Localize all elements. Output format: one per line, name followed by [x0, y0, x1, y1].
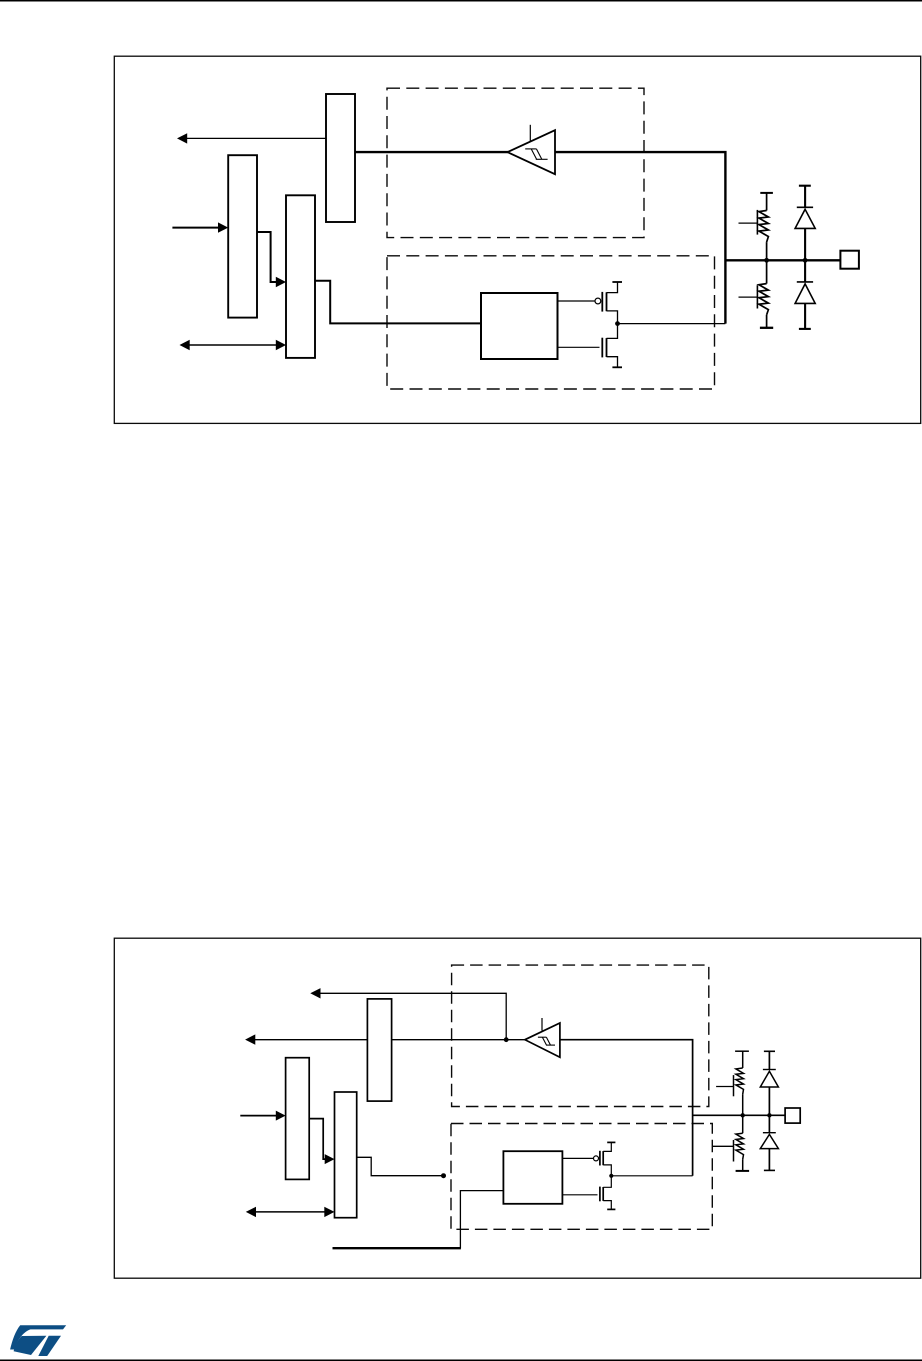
Q3 source stub to VDD	[603, 1142, 611, 1151]
output control block	[481, 293, 558, 359]
figure 2 frame	[114, 938, 920, 1278]
Q3 gate wire	[562, 1157, 593, 1159]
wire register C to output control (stepped)	[315, 281, 481, 324]
VDD rail bar (protection)	[799, 185, 811, 187]
wire pad net horizontal (fig2)	[693, 1114, 786, 1116]
Q3 gate bar	[599, 1151, 601, 1166]
Schmitt trigger U2	[525, 1023, 560, 1057]
node pull-up junction (fig2)	[741, 1113, 745, 1117]
R1 switch bar	[756, 210, 758, 235]
Q4 drain stub	[603, 1176, 611, 1188]
wire alternate function output (thick bottom lead)	[333, 1247, 461, 1249]
Q1 gate wire	[558, 300, 595, 302]
transistor Q1 (P-MOS)	[558, 300, 595, 302]
VSS rail bar (protection)	[799, 328, 811, 330]
node alternate function input junction	[504, 1037, 509, 1042]
R4 switch bar	[733, 1140, 735, 1162]
arrow alternate function input	[318, 993, 506, 1039]
R4 on/off switch lever	[713, 1145, 734, 1147]
register block A	[326, 94, 355, 222]
header rule	[0, 0, 922, 2]
Q3 gate bubble	[594, 1156, 599, 1161]
hysteresis symbol (fig2)	[538, 1037, 555, 1045]
Q4 channel bar	[602, 1187, 604, 1201]
R2 on/off switch lever	[739, 296, 758, 298]
R3 on/off switch lever	[716, 1086, 733, 1088]
Q4 gate wire	[562, 1194, 597, 1196]
R3 switch bar	[733, 1075, 735, 1096]
VDD rail bar (fig2 driver)	[607, 1141, 615, 1143]
arrow Write (fig2)	[240, 1115, 278, 1117]
I/O pin pad (fig2)	[785, 1108, 800, 1123]
register block C	[286, 195, 315, 358]
output control block (fig2)	[503, 1151, 562, 1204]
node push-pull drain junction	[615, 321, 620, 326]
wire pad net horizontal	[725, 259, 840, 261]
Q1 source stub to VDD	[607, 282, 618, 293]
Q1 gate bar	[601, 292, 603, 312]
transistor Q2 (N-MOS)	[558, 346, 600, 348]
hysteresis symbol	[525, 149, 547, 159]
arrow Read/Write (double headed)	[186, 344, 279, 346]
node pull-up junction	[764, 258, 769, 263]
diode D1 (to VDD)	[804, 186, 806, 208]
register block B (fig2)	[286, 1058, 310, 1180]
Q4 gate bar	[599, 1187, 601, 1202]
VSS rail bar (pull-down)	[760, 327, 773, 329]
resistor R1 (pull-up, sawtooth)	[759, 193, 769, 260]
diode D3 (to VDD, fig2)	[768, 1051, 770, 1069]
arrow Read/Write (fig2, double headed)	[252, 1211, 328, 1213]
resistor R3 (pull-up, fig2, sawtooth)	[736, 1051, 744, 1115]
Q2 source stub to VSS	[607, 357, 618, 368]
VDD rail bar (fig2 pull-up)	[735, 1050, 749, 1052]
VSS rail bar (fig2 pull-down)	[736, 1170, 750, 1172]
Q2 gate wire	[558, 346, 600, 348]
diode D4 (to VSS, fig2)	[768, 1115, 770, 1132]
register block C (fig2)	[335, 1092, 357, 1218]
wire register C to node (stepped, ends with junction dot)	[357, 1157, 444, 1175]
figure 1 frame	[114, 56, 920, 423]
R2 switch bar	[756, 285, 758, 308]
ST logo	[10, 1325, 66, 1356]
Q1 gate bubble	[595, 298, 601, 304]
wire register B to register C (stepped, with arrowhead)	[257, 232, 278, 282]
wire register B to register C (fig2, stepped with arrowhead)	[309, 1119, 327, 1160]
Q3 drain stub	[603, 1165, 611, 1176]
node protection junction (fig2)	[767, 1113, 771, 1117]
register block B	[228, 155, 257, 317]
Schmitt trigger enable pin tick	[529, 125, 531, 142]
Q3 channel bar	[602, 1151, 604, 1165]
input driver dashed box	[387, 88, 644, 237]
VSS rail bar (fig2 protection)	[764, 1169, 775, 1171]
arrow Read (bus out, top-left)	[186, 137, 326, 139]
diode D2 (to VSS)	[804, 260, 806, 282]
wire Schmitt trigger input from pad (right, then down)	[555, 152, 725, 324]
arrow Read (fig2) / wire to Schmitt input	[253, 1039, 526, 1041]
arrow Write (into register block B)	[172, 227, 220, 229]
transistor Q4 (N-MOS, fig2)	[562, 1194, 597, 1196]
Q1 drain stub	[607, 311, 618, 324]
Schmitt trigger enable pin tick (fig2)	[541, 1018, 543, 1031]
VDD rail bar (fig2 protection)	[764, 1050, 775, 1052]
VSS rail bar (fig2 driver)	[607, 1208, 615, 1210]
Q2 drain stub	[607, 324, 618, 339]
VSS rail bar	[612, 366, 622, 368]
wire register A to Schmitt trigger output	[355, 151, 508, 153]
wire drain node to pad net	[618, 323, 726, 325]
Q1 channel bar	[606, 292, 608, 311]
Q2 channel bar	[606, 338, 608, 357]
wire drain node to pad net (fig2)	[611, 1175, 692, 1177]
register block A (fig2)	[367, 999, 391, 1101]
R1 on/off switch lever	[739, 222, 758, 224]
footer rule	[0, 1360, 922, 1361]
resistor R2 (pull-down, sawtooth)	[759, 260, 769, 328]
Q4 source stub to VSS	[603, 1201, 611, 1210]
Q2 gate bar	[601, 338, 603, 358]
output driver dashed box	[387, 256, 715, 389]
node output data tap	[441, 1173, 446, 1178]
wire alternate function output riser into output control	[460, 1191, 503, 1249]
node push-pull drain junction (fig2)	[609, 1174, 613, 1178]
wire Schmitt input from pad (fig2, right then down)	[560, 1040, 693, 1176]
VDD rail bar	[612, 281, 622, 283]
input driver dashed box (fig2)	[452, 965, 709, 1106]
I/O pin pad	[840, 251, 859, 269]
node protection junction	[803, 258, 808, 263]
output driver dashed box (fig2)	[451, 1124, 712, 1230]
resistor R4 (pull-down, fig2, sawtooth)	[736, 1115, 744, 1171]
VDD rail bar (pull-up)	[760, 192, 773, 194]
transistor Q3 (P-MOS, fig2)	[562, 1157, 593, 1159]
Schmitt trigger U1	[508, 130, 556, 174]
